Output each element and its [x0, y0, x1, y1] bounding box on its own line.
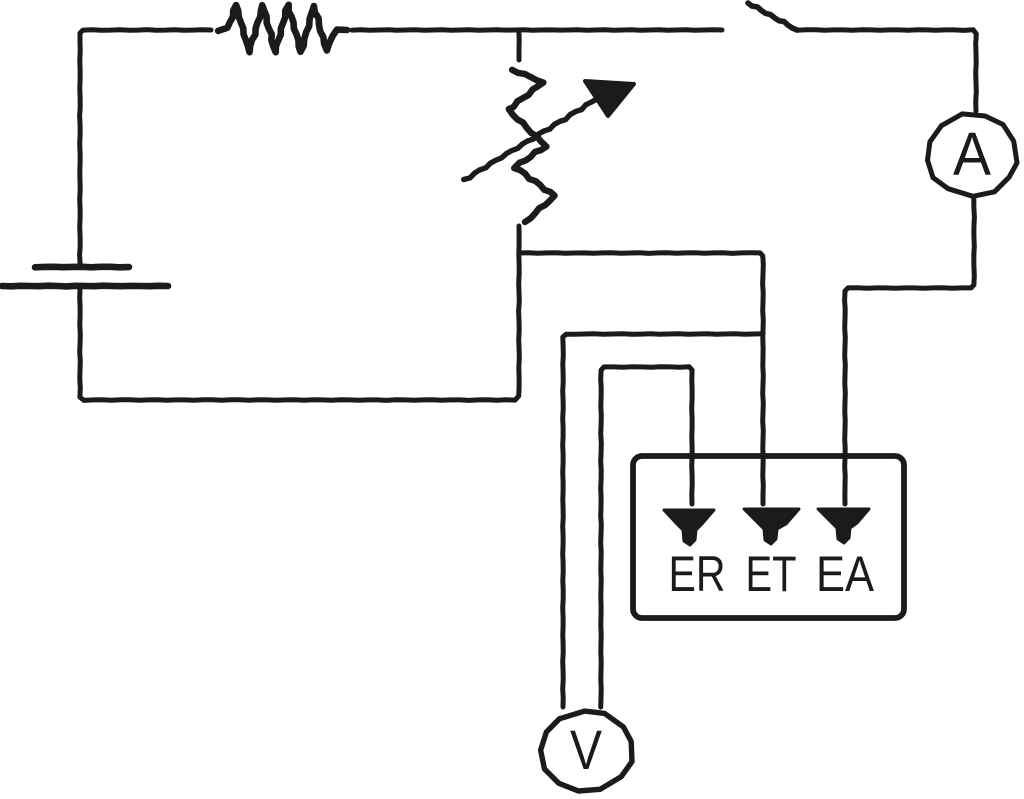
svg-text:V: V [570, 718, 603, 781]
terminal ET arrowhead [744, 509, 799, 544]
ammeter A1 circle [928, 114, 1018, 196]
wire battery negative to rheostat R2 bottom (down, right, up) [80, 226, 520, 400]
svg-text:ET: ET [746, 546, 797, 602]
switch S1 arm (open) [748, 3, 797, 30]
rheostat R2 wiper arrowhead [585, 81, 634, 116]
rheostat R2 top stub wire [516, 30, 521, 60]
svg-text:EA: EA [816, 546, 875, 602]
wire resistor R1 to switch S1 (junction at rheostat top) [352, 27, 722, 33]
svg-text:A: A [953, 120, 991, 188]
battery B1 bottom plate (long) [2, 282, 168, 289]
terminal ER arrowhead [664, 510, 714, 545]
terminal board box [633, 456, 904, 618]
rheostat R2 zigzag element [509, 70, 555, 222]
wire battery positive to resistor R1 (left vertical + top horizontal) [80, 30, 211, 264]
resistor R1 [218, 5, 347, 52]
wire ammeter A1 to terminal EA [845, 198, 975, 504]
wire voltmeter V1 right lead to terminal ER [601, 367, 693, 707]
wire ET net tee to voltmeter V1 left lead [563, 334, 763, 707]
battery B1 top plate (short) [35, 263, 129, 270]
terminal EA arrowhead [818, 509, 869, 543]
wire rheostat R2 bottom junction to terminal ET (right, down) [519, 253, 763, 504]
voltmeter V1 circle [541, 711, 632, 791]
rheostat R2 wiper arrow shaft [464, 99, 597, 180]
svg-text:ER: ER [669, 546, 726, 602]
wire switch S1 to ammeter A1 [797, 30, 976, 111]
